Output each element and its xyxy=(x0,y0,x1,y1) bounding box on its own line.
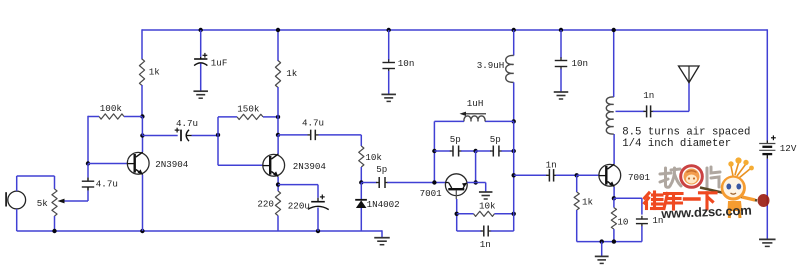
svg-text:1n: 1n xyxy=(643,90,654,101)
resistor R4 150k xyxy=(237,114,263,119)
inductor L3 8.5 turns xyxy=(606,97,613,134)
wire top supply bus xyxy=(142,29,767,31)
wire L1 bottom xyxy=(513,82,515,121)
capacitor C6 220u polarized xyxy=(317,198,319,202)
wire Q3 emitter to ground xyxy=(467,182,476,184)
svg-text:1k: 1k xyxy=(149,67,161,78)
wire tank column xyxy=(513,121,515,213)
wire clamp node to C7 xyxy=(361,182,377,184)
capacitor C15 1n antenna xyxy=(616,110,645,112)
wire R1 bottom to base node xyxy=(141,85,143,117)
wire C8 top xyxy=(388,30,390,60)
svg-text:220u: 220u xyxy=(288,200,310,211)
capacitor C3 4.7u xyxy=(87,178,89,182)
diode D1 1N4002 xyxy=(360,183,362,200)
svg-text:10: 10 xyxy=(617,216,628,227)
inductor L2 1uH xyxy=(464,116,485,121)
arrow L2 tuning xyxy=(463,113,486,115)
svg-text:5k: 5k xyxy=(37,198,49,209)
wire C8 bottom xyxy=(388,71,390,95)
node L1 top on bus xyxy=(512,28,516,32)
resistor R8 10k feedback xyxy=(457,213,474,215)
ground G7 battery xyxy=(759,238,776,240)
wire L2 left to osc left column xyxy=(434,120,464,122)
node Q3 emitter tee xyxy=(474,180,478,184)
transistor Q1 2N3904 xyxy=(127,152,149,174)
wire bottom ground bus xyxy=(17,230,382,232)
resistor R3 5k potentiometer xyxy=(52,189,57,216)
svg-text:10k: 10k xyxy=(365,152,382,163)
svg-text:1/4 inch diameter: 1/4 inch diameter xyxy=(622,138,731,150)
ground G6 PA xyxy=(595,255,609,257)
capacitor C8 10n xyxy=(388,59,390,62)
capacitor C1 1uF polarized xyxy=(200,57,202,59)
wiper arrow of R3 xyxy=(58,199,65,204)
capacitor C11 5p xyxy=(476,150,491,152)
capacitor C10 5p xyxy=(434,150,450,152)
wire R3 bottom xyxy=(54,216,56,231)
wire C7 to oscillator base xyxy=(387,182,445,184)
wire 1k to coupling node xyxy=(277,117,279,136)
node R10 bottom on rail xyxy=(612,239,616,243)
svg-text:1N4002: 1N4002 xyxy=(367,199,400,210)
node C2 output xyxy=(216,133,220,137)
antenna ANT1 xyxy=(679,66,700,83)
wire 150k left drop xyxy=(217,136,219,166)
resistor R2 100k xyxy=(99,114,124,119)
svg-text:5p: 5p xyxy=(376,164,387,175)
svg-text:10n: 10n xyxy=(572,58,589,69)
svg-text:10n: 10n xyxy=(398,58,415,69)
node Q4 emitter tee xyxy=(612,196,616,200)
svg-text:4.7u: 4.7u xyxy=(302,117,324,128)
svg-text:5p: 5p xyxy=(490,134,501,145)
wire left supply drop xyxy=(141,29,143,59)
node R8 right on tank column xyxy=(512,212,516,216)
node osc base tee xyxy=(432,180,436,184)
wire C9 top xyxy=(560,30,562,58)
node Q1 collector coupling xyxy=(140,133,144,137)
node R3 bottom on bus xyxy=(52,229,56,233)
svg-text:1uH: 1uH xyxy=(467,98,484,109)
wire R6 bottom xyxy=(277,216,279,231)
wire Q2 emitter xyxy=(277,177,279,191)
label C1 plus xyxy=(203,54,208,56)
wire R7 bottom xyxy=(360,167,362,183)
svg-text:100k: 100k xyxy=(100,103,123,114)
wire C14 bottom xyxy=(641,226,643,242)
wire L3 top xyxy=(613,30,615,97)
wire C2 to 150k node xyxy=(192,135,219,137)
svg-text:3.9uH: 3.9uH xyxy=(477,60,505,71)
watermark dzsc logo xyxy=(645,157,770,221)
node L3 top on bus xyxy=(612,28,616,32)
wire battery to ground xyxy=(766,159,768,240)
svg-text:1uF: 1uF xyxy=(211,58,228,69)
wire collector node to C2 xyxy=(142,135,177,137)
microphone MIC1 xyxy=(8,191,26,209)
wire R4 right xyxy=(263,116,278,118)
svg-text:7001: 7001 xyxy=(628,172,651,183)
wire Q1 base xyxy=(88,163,127,165)
wire Q2 base xyxy=(218,164,263,166)
wire C9 bottom xyxy=(560,69,562,92)
node Q1 emitter on bus xyxy=(140,229,144,233)
wire Q4 collector xyxy=(613,134,615,164)
wire C5 to R7 corner xyxy=(360,135,362,146)
ground G3 xyxy=(554,91,569,93)
wire mid cap column xyxy=(475,151,477,183)
resistor R7 10k xyxy=(359,146,364,167)
node C11 right on tank column xyxy=(512,149,516,153)
battery B1 12V xyxy=(766,140,768,143)
node tank top xyxy=(512,119,516,123)
ground G2 xyxy=(381,93,396,95)
svg-text:1n: 1n xyxy=(480,239,491,250)
svg-text:1k: 1k xyxy=(582,196,594,207)
label C6 plus xyxy=(320,196,325,198)
wire rail to ground xyxy=(601,242,603,257)
capacitor C12 1n feedback xyxy=(457,230,482,232)
capacitor C9 10n xyxy=(560,57,562,60)
wire emitter tee to C14 xyxy=(614,197,642,199)
node C9 top on bus xyxy=(559,28,563,32)
wire supply drop to R5 xyxy=(277,29,279,61)
ground G4 oscillator xyxy=(479,191,493,193)
svg-text:2N3904: 2N3904 xyxy=(293,161,327,172)
wire C6 bottom xyxy=(317,208,319,232)
label C2 plus xyxy=(175,129,180,131)
svg-text:220: 220 xyxy=(257,199,274,210)
wire emitter tee to C6 xyxy=(278,184,318,186)
wire antenna riser xyxy=(688,83,690,112)
wire C13 to Q4 base xyxy=(577,174,599,176)
wire R5 bottom xyxy=(277,87,279,118)
node osc output tap xyxy=(512,173,516,177)
node R4 right on supply drop xyxy=(276,115,280,119)
wire L1 top xyxy=(513,30,515,56)
node Q2 collector coupling xyxy=(276,133,280,137)
svg-text:8.5 turns air spaced: 8.5 turns air spaced xyxy=(622,127,750,139)
svg-text:4.7u: 4.7u xyxy=(96,178,118,189)
wire battery feed xyxy=(766,29,768,140)
node C6 bottom on bus xyxy=(316,229,320,233)
transistor Q4 7001 PA xyxy=(599,164,621,186)
svg-text:2N3904: 2N3904 xyxy=(155,159,189,170)
svg-text:5p: 5p xyxy=(450,134,461,145)
wire collector node up xyxy=(141,117,143,136)
node rail ground tap xyxy=(600,239,604,243)
wire bus drop to ground xyxy=(381,230,383,237)
svg-text:12V: 12V xyxy=(780,143,797,154)
svg-text:1k: 1k xyxy=(286,68,298,79)
resistor R9 1k xyxy=(576,175,578,192)
wire C1 bottom xyxy=(200,64,202,92)
svg-text:10k: 10k xyxy=(479,200,496,211)
node diode clamp xyxy=(359,180,363,184)
wire Q1 collector xyxy=(142,136,144,152)
node C8 top on bus xyxy=(387,28,391,32)
wire C3 bottom to pot wiper xyxy=(87,191,89,202)
wire MIC1 top to R3 top xyxy=(16,176,18,191)
wire R2 left + drop to Q1 base node xyxy=(88,116,99,118)
node base bias junction Q1 xyxy=(140,114,144,118)
transistor Q2 2N3904 xyxy=(263,154,285,176)
resistor R1 1k xyxy=(139,59,144,86)
wire R2 right xyxy=(124,116,142,118)
capacitor C7 5p xyxy=(376,182,379,184)
inductor L1 3.9uH xyxy=(506,55,514,82)
node Q3 base feedback tee xyxy=(455,212,459,216)
wire C1 top xyxy=(200,30,202,57)
svg-text:1n: 1n xyxy=(546,160,557,171)
capacitor C5 4.7u xyxy=(278,134,308,136)
node osc left at C10 xyxy=(432,149,436,153)
wire base node down to C3 xyxy=(87,164,89,178)
node Q1 base xyxy=(86,161,90,165)
node Q2 emitter tee xyxy=(276,182,280,186)
wire Q2 collector xyxy=(277,135,279,155)
wire R4 left xyxy=(218,116,237,118)
svg-text:4.7u: 4.7u xyxy=(176,118,198,129)
resistor R6 220 xyxy=(275,191,280,216)
node C10-C11 mid xyxy=(473,149,477,153)
wire PA emitter rail xyxy=(577,241,642,243)
transistor Q3 7001 oscillator xyxy=(445,174,467,196)
node C1 top on bus xyxy=(199,28,203,32)
svg-text:7001: 7001 xyxy=(420,188,443,199)
wire tank top to L2 xyxy=(485,120,514,122)
capacitor C13 1n coupling xyxy=(514,174,548,176)
resistor R5 1k xyxy=(275,61,280,88)
wire MIC1 bottom xyxy=(16,209,18,231)
wire Q4 emitter xyxy=(613,187,615,199)
node PA base bias tee xyxy=(575,173,579,177)
label B1 plus xyxy=(771,137,776,139)
node supply drop bus xyxy=(276,28,280,32)
ground G5 main xyxy=(374,237,390,239)
wire Q1 emitter xyxy=(142,175,144,231)
capacitor C2 4.7u polarized xyxy=(180,130,182,142)
wire Q3 base stem xyxy=(456,199,458,231)
resistor R10 10 xyxy=(613,198,615,207)
svg-text:150k: 150k xyxy=(237,103,260,114)
capacitor C14 1n xyxy=(641,216,643,219)
ground G1 xyxy=(193,90,208,92)
